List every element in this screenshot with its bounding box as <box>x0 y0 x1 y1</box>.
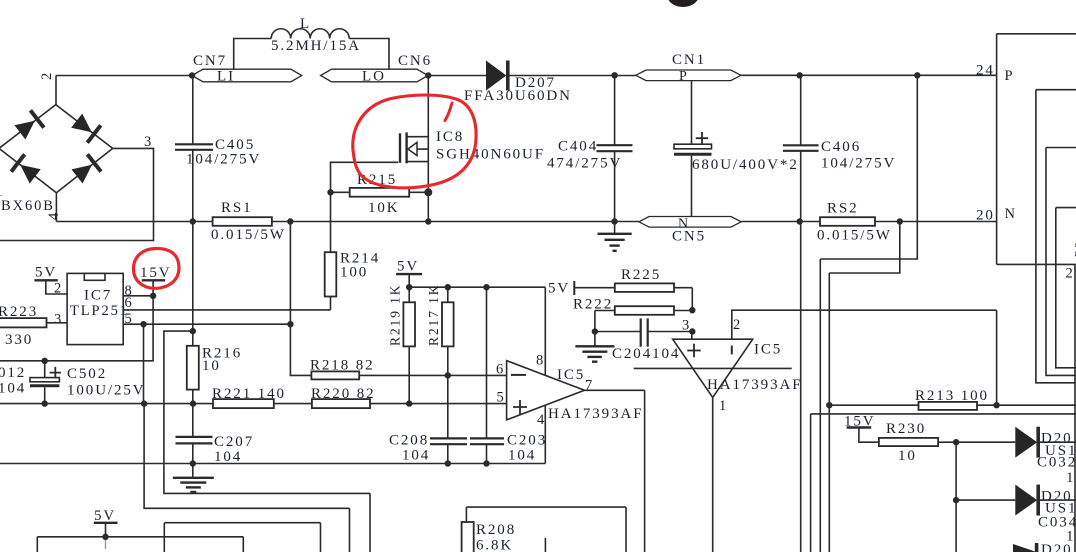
svg-text:IC8: IC8 <box>436 129 464 145</box>
IC7 optocoupler TLP251 <box>67 273 123 344</box>
svg-text:C208: C208 <box>389 433 429 449</box>
power 5V comparator rail <box>396 273 422 275</box>
resistor R217 1K <box>442 287 454 438</box>
node R216 gate jog junction <box>190 328 196 334</box>
diode D203 partial <box>1013 543 1037 552</box>
svg-text:100U/25V: 100U/25V <box>67 383 146 399</box>
resistor R220 82 <box>312 399 370 408</box>
svg-text:RS2: RS2 <box>827 201 859 217</box>
wire rail junction to R218 jog <box>290 222 311 376</box>
net flag N CN5 <box>639 217 741 228</box>
svg-text:104: 104 <box>214 449 242 465</box>
wire D207 to CN1 <box>510 75 636 77</box>
title text fragment <box>667 0 699 7</box>
node R217 bottom junction <box>445 372 451 378</box>
resistor R223 330 <box>0 318 47 327</box>
svg-text:IC5: IC5 <box>754 342 782 358</box>
svg-text:IC5: IC5 <box>557 367 585 383</box>
node C404 top junction <box>611 72 617 78</box>
resistor RS1 0.015/5W <box>213 217 272 226</box>
svg-text:TLP251: TLP251 <box>70 303 129 319</box>
node pin5 left junction <box>140 321 146 327</box>
svg-text:FFA30U60DN: FFA30U60DN <box>464 88 572 104</box>
wire IC5b pin2 <box>732 310 997 405</box>
box bottom transformer 2 <box>37 537 243 552</box>
power 5V for IC7 <box>34 279 57 281</box>
svg-text:2: 2 <box>733 317 742 333</box>
wire IC5 pin7 output <box>585 390 645 552</box>
svg-text:SGH40N60UF: SGH40N60UF <box>436 147 545 163</box>
svg-text:2: 2 <box>39 71 55 80</box>
svg-text:LI: LI <box>217 69 235 85</box>
wire right vertical A from top rail <box>820 75 917 552</box>
wire IC5 pin4 <box>544 405 546 463</box>
svg-text:C406: C406 <box>821 139 861 155</box>
capacitor C406 104/275V <box>783 75 819 552</box>
nested box 2 <box>1046 148 1076 376</box>
capacitor C207 104 <box>176 404 213 464</box>
wire C405 line down to R216 <box>192 222 194 346</box>
resistor R222 <box>595 306 692 331</box>
diode D202 US1M <box>956 485 1076 516</box>
resistor R215 10K <box>331 188 429 197</box>
svg-text:5V: 5V <box>35 265 57 281</box>
resistor RS2 0.015/5W <box>820 217 875 226</box>
nested box 3 <box>1056 208 1076 368</box>
svg-text:R221 140: R221 140 <box>212 386 286 402</box>
svg-text:RS1: RS1 <box>221 200 253 216</box>
svg-text:104: 104 <box>402 448 430 464</box>
capacitor C203 104 <box>470 287 504 463</box>
svg-text:3: 3 <box>54 312 63 328</box>
svg-text:6: 6 <box>125 295 134 311</box>
node rail junctions <box>190 218 196 224</box>
svg-text:LO: LO <box>362 69 386 85</box>
svg-text:R223: R223 <box>0 304 38 320</box>
svg-text:10K: 10K <box>368 200 400 216</box>
wire right vertical B from RS2 right <box>829 222 900 552</box>
svg-text:HA17393AF: HA17393AF <box>707 377 802 393</box>
resistor R218 82 <box>311 371 359 379</box>
box connector right <box>997 34 1076 265</box>
net flag LO <box>321 69 428 82</box>
rail bottom ground <box>0 463 545 465</box>
svg-text:2: 2 <box>1066 266 1075 282</box>
svg-text:5.2MH/15A: 5.2MH/15A <box>271 38 361 54</box>
wire R216 bottom <box>192 390 194 404</box>
rail 5V to IC5 pin8 <box>409 287 545 375</box>
node right vertical top junction <box>914 72 920 78</box>
svg-text:012: 012 <box>0 365 26 381</box>
svg-text:C502: C502 <box>67 366 107 382</box>
node CN6 junction <box>425 72 431 78</box>
svg-text:R208: R208 <box>476 522 516 538</box>
svg-text:IC7: IC7 <box>84 288 112 304</box>
svg-text:R230: R230 <box>886 421 926 437</box>
svg-text:15V: 15V <box>140 265 172 281</box>
svg-text:C207: C207 <box>214 434 254 450</box>
comparator IC5 HA17393AF first <box>507 361 585 420</box>
svg-text:104/275V: 104/275V <box>186 152 261 168</box>
node CN7 junction <box>189 72 195 78</box>
box bottom transformer 1 <box>164 523 320 552</box>
svg-text:CN6: CN6 <box>398 53 432 69</box>
wire stub in R208 box <box>544 538 546 552</box>
annotation red circle 15V <box>133 248 179 288</box>
wire jog to bottom left <box>164 331 370 552</box>
svg-text:D20: D20 <box>1041 542 1073 552</box>
wire R220 to IC5 pin5 <box>370 403 507 405</box>
svg-text:HA17393AF: HA17393AF <box>548 406 643 422</box>
svg-text:0.015/5W: 0.015/5W <box>817 228 892 244</box>
svg-text:4: 4 <box>46 211 62 220</box>
resistor R219 1K <box>403 287 415 403</box>
wire R230 node down <box>955 442 957 552</box>
svg-text:R219 1K: R219 1K <box>388 284 403 346</box>
resistor R214 100 <box>325 252 337 296</box>
svg-text:0.015/5W: 0.015/5W <box>211 227 286 243</box>
resistor R216 10 <box>187 346 199 390</box>
svg-text:R218 82: R218 82 <box>310 358 375 374</box>
node pin5 right junction <box>287 321 293 327</box>
nested box 1 <box>1036 90 1076 383</box>
svg-text:5V: 5V <box>397 259 419 275</box>
svg-text:R225: R225 <box>621 267 661 283</box>
svg-text:N: N <box>1005 206 1017 222</box>
MOSFET IC8 SGH40N60UF <box>400 76 428 222</box>
svg-text:474/275V: 474/275V <box>547 156 622 172</box>
svg-text:6.8K: 6.8K <box>476 538 513 552</box>
svg-text:R213 100: R213 100 <box>915 388 989 404</box>
svg-text:24: 24 <box>976 63 995 79</box>
wire IC5b pin1 output <box>712 398 714 552</box>
wire 15V rail down-left <box>0 296 153 361</box>
node gate R215 junction <box>327 189 333 195</box>
svg-text:100: 100 <box>340 265 368 281</box>
power 15V for IC7 pin8 <box>142 279 165 281</box>
wire right edge vertical <box>1074 264 1076 552</box>
capacitor C208 104 <box>430 438 467 463</box>
svg-text:CN7: CN7 <box>193 53 227 69</box>
svg-text:P: P <box>679 69 689 84</box>
wire pin5 down to C502 rail <box>143 324 145 403</box>
wire IC7 pin3 <box>47 322 68 324</box>
capacitor 680U/400V*2 electrolytic <box>674 81 712 217</box>
svg-text:10: 10 <box>202 358 221 374</box>
node C406 top junction <box>797 72 803 78</box>
svg-text:1: 1 <box>0 184 5 200</box>
inductor L 5.2MH/15A <box>234 29 389 70</box>
svg-text:C204104: C204104 <box>612 346 680 362</box>
net flag LI <box>192 69 302 82</box>
capacitor C204 104 <box>595 318 692 346</box>
wire IC5b pin3 <box>691 332 693 340</box>
capacitor C405 104/275V <box>175 76 213 222</box>
ground under C207 <box>173 464 214 493</box>
ground under C404 <box>598 222 632 251</box>
wire IC7 pin5 <box>123 323 290 325</box>
capacitor C404 474/275V <box>597 75 633 221</box>
wire IC7 pin8 to 15V <box>123 280 153 296</box>
svg-text:104: 104 <box>0 381 26 397</box>
annotation red circle IC8 <box>353 95 476 188</box>
svg-text:CN5: CN5 <box>672 229 706 245</box>
wire through line <box>634 367 792 369</box>
svg-text:7: 7 <box>585 378 594 394</box>
resistor R225 <box>574 283 692 310</box>
svg-text:5V: 5V <box>548 281 570 297</box>
wire gate of IC8 <box>331 162 399 252</box>
wire lower horizontal <box>811 414 1076 552</box>
svg-text:P: P <box>1005 68 1015 84</box>
svg-text:10: 10 <box>898 448 917 464</box>
svg-text:104: 104 <box>508 448 536 464</box>
wire IC7 pin6 to R214 <box>123 297 330 310</box>
wire bridge pin2 to CN7 <box>56 76 192 105</box>
wire R218 to IC5 pin6 <box>359 374 506 376</box>
main lower rail <box>56 221 996 223</box>
wire IC7 pin2 <box>46 280 67 294</box>
box R208 block <box>466 507 626 552</box>
svg-text:R220 82: R220 82 <box>311 386 376 402</box>
svg-text:L: L <box>300 16 311 32</box>
capacitor C502 100U/25V electrolytic <box>30 361 61 404</box>
wire bridge pin3 <box>0 148 154 240</box>
node pin8 junction <box>150 293 156 299</box>
net flag P <box>636 70 741 81</box>
wire CN1 to box pin 24 <box>741 74 997 76</box>
diode D201 US1M <box>956 427 1076 458</box>
rail C502 bottom <box>0 403 213 405</box>
svg-text:R222: R222 <box>573 297 613 313</box>
diode D207 FFA30U60DN <box>486 61 508 91</box>
svg-text:C203: C203 <box>507 433 547 449</box>
node C502 top junction <box>42 358 48 364</box>
resistor R230 10 <box>859 428 956 447</box>
svg-text:C032: C032 <box>1037 455 1076 471</box>
ground under R222 <box>575 332 614 362</box>
wire to bottom left corner <box>144 404 349 552</box>
svg-text:CN1: CN1 <box>672 52 706 68</box>
node R219 bottom junction <box>406 400 412 406</box>
resistor R221 140 <box>213 399 274 408</box>
svg-text:20: 20 <box>976 208 995 224</box>
wire CN6 to D207 <box>428 75 486 77</box>
svg-text:104/275V: 104/275V <box>821 156 896 172</box>
svg-text:1: 1 <box>719 398 728 414</box>
svg-text:680U/400V*2: 680U/400V*2 <box>692 157 799 173</box>
resistor R208 6.8K <box>462 522 474 552</box>
svg-text:330: 330 <box>5 332 33 348</box>
bridge rectifier BD1 BX60B <box>0 105 113 193</box>
wire bridge pin4 <box>55 193 57 222</box>
svg-text:8: 8 <box>536 353 545 369</box>
resistor R213 100 <box>829 402 1076 410</box>
svg-text:6: 6 <box>496 362 505 378</box>
svg-text:C404: C404 <box>558 139 598 155</box>
svg-text:5: 5 <box>497 390 506 406</box>
svg-text:R217 1K: R217 1K <box>426 284 441 346</box>
comparator IC5 HA17393AF second <box>673 339 753 397</box>
wire R221 to R220 <box>274 403 312 405</box>
